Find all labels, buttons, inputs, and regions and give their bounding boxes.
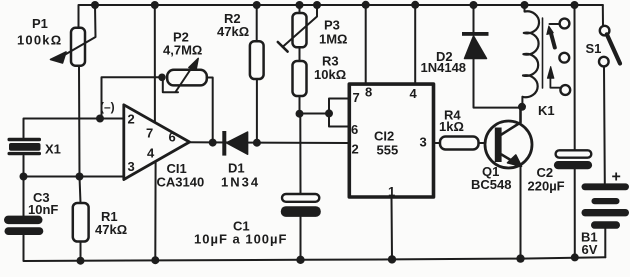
svg-text:BC548: BC548 [471, 177, 511, 192]
svg-text:1N4148: 1N4148 [421, 60, 467, 75]
svg-text:6V: 6V [582, 242, 598, 257]
label C1 value [194, 219, 287, 247]
svg-text:4,7MΩ: 4,7MΩ [163, 43, 202, 58]
capacitor C2 [554, 150, 592, 169]
junction dot P3 wiper on rail [313, 1, 321, 9]
svg-text:6: 6 [169, 130, 176, 145]
junction dot pin 8 [362, 1, 370, 9]
relay coil K1 [522, 6, 539, 107]
label R3 value 10k [314, 54, 346, 83]
relay moving blade [547, 24, 560, 48]
svg-text:4: 4 [147, 146, 155, 161]
svg-text:7: 7 [353, 90, 360, 105]
diode D1 1N34 [222, 131, 247, 156]
wire node down to C1 [299, 114, 301, 194]
svg-text:1N34: 1N34 [221, 175, 260, 190]
wire battery bottom to ground [604, 229, 606, 257]
svg-text:CA3140: CA3140 [157, 175, 205, 190]
wire feedback from node up to P2 left [102, 77, 163, 118]
pin labels CI2 [351, 85, 427, 200]
svg-text:4: 4 [410, 86, 418, 101]
svg-text:X1: X1 [45, 142, 61, 157]
junction node X1 / pin3 wire [20, 173, 28, 181]
wire pin 1 to ground [391, 197, 394, 259]
junction dot pin 4 [411, 1, 419, 9]
junction dot coil top rail [521, 1, 529, 9]
svg-text:10µF a 100µF: 10µF a 100µF [194, 232, 287, 247]
capacitor C3 [4, 216, 43, 235]
junction dot C2 ground [571, 253, 579, 261]
svg-text:P1: P1 [32, 16, 48, 31]
svg-text:2: 2 [128, 112, 135, 127]
potentiometer P3 [278, 5, 317, 52]
wire pin 4 to rail [414, 5, 416, 83]
svg-text:47kΩ: 47kΩ [95, 222, 127, 237]
junction dot R2 top [253, 1, 261, 9]
svg-text:10nF: 10nF [28, 202, 58, 217]
wire node to 555 pins 7-6 bracket [300, 113, 330, 115]
svg-text:3: 3 [420, 135, 427, 150]
label P2 value 4,7M [163, 30, 202, 58]
wire P3 to R3 [299, 47, 301, 61]
junction dot P1 wiper on rail [91, 1, 99, 9]
wire node to op-amp pin 3 [24, 176, 125, 178]
wire top supply rail [79, 5, 603, 28]
label CI1 CA3140 [157, 161, 205, 190]
junction dot emitter ground [516, 254, 524, 262]
relay armature line [542, 18, 544, 88]
svg-text:7: 7 [146, 126, 153, 141]
label P1 value 100k [17, 16, 62, 48]
label CI2 555 [374, 129, 398, 158]
capacitor C1 [281, 194, 321, 217]
svg-text:CI2: CI2 [374, 129, 394, 144]
resistor R2 [250, 5, 264, 143]
junction dot CI1 power top [151, 1, 159, 9]
svg-text:6: 6 [351, 122, 358, 137]
switch S1 [599, 5, 620, 183]
label B1 6V [581, 230, 598, 258]
IC CI2 555 box [349, 84, 433, 197]
svg-text:47kΩ: 47kΩ [217, 24, 249, 39]
junction dot coil bottom node [518, 103, 526, 111]
label R1 value 47k [95, 209, 127, 237]
resistor R1 [73, 203, 89, 242]
wire X1 top to inverting input [24, 119, 125, 138]
label R4 value 1k [439, 108, 464, 135]
svg-text:3: 3 [128, 159, 135, 174]
relay contact top [560, 19, 570, 29]
diode D2 1N4148 [462, 6, 522, 108]
wire pin 8 to rail [365, 5, 367, 83]
junction dot C1 ground [296, 256, 304, 264]
relay contact bottom [560, 85, 570, 95]
wire pin 3 to R4 [436, 142, 441, 144]
resistor R4 [440, 137, 479, 150]
wire bottom ground rail [24, 235, 606, 261]
wire bracket pins 7 and 6 [329, 99, 348, 127]
wire CI1 power rail through pins 7/4 [154, 5, 156, 123]
op-amp U1 CA3140 triangle [124, 105, 190, 180]
crystal X1 [8, 138, 42, 155]
wire supply to C2 column [574, 5, 576, 150]
svg-text:220µF: 220µF [528, 179, 565, 194]
wire C1 bottom to ground [300, 217, 302, 260]
junction dot pin 1 ground [388, 255, 396, 263]
battery B1 [582, 183, 630, 228]
svg-text:8: 8 [365, 85, 372, 100]
label D2 value 1N4148 [421, 49, 467, 75]
svg-text:1MΩ: 1MΩ [319, 32, 347, 47]
potentiometer P1 [51, 5, 96, 66]
svg-text:2: 2 [352, 142, 359, 157]
label C3 value 10nF [28, 190, 58, 217]
wire R1 bottom to ground rail [80, 242, 82, 261]
svg-text:D1: D1 [228, 161, 245, 176]
svg-text:+: + [612, 169, 621, 186]
junction dot R1 ground [77, 257, 85, 265]
pin labels CI1 [128, 112, 176, 175]
label P3 value 1M [319, 18, 347, 47]
wire R3 bottom to threshold node [299, 96, 301, 114]
wire R4 to Q1 base [479, 142, 497, 144]
label C2 value 220uF [528, 165, 565, 194]
junction dot P2 left terminal [158, 74, 166, 82]
svg-text:555: 555 [377, 143, 399, 158]
junction dot P2/output [209, 139, 217, 147]
svg-text:100kΩ: 100kΩ [17, 33, 62, 48]
resistor R3 [293, 61, 307, 96]
svg-text:S1: S1 [586, 41, 602, 56]
junction dot D2 top rail [470, 1, 478, 9]
svg-text:1kΩ: 1kΩ [439, 119, 464, 134]
relay contact middle [559, 53, 569, 63]
label Q1 BC548 [471, 164, 511, 192]
label R2 value 47k [217, 11, 249, 39]
svg-text:P3: P3 [324, 18, 340, 33]
wire P1 bottom to R1 column [79, 66, 81, 203]
junction node pin3 / R1 [76, 173, 84, 181]
wire X1 bottom to C3 [23, 156, 25, 216]
junction dot CI1 power bottom [151, 256, 159, 264]
junction dot P3 top [296, 1, 304, 9]
label D1 value 1N34 [221, 161, 260, 190]
wire op-amp output to 555 pin 2 [190, 141, 349, 144]
wire C2 bottom to ground [574, 169, 576, 257]
wire Q1 emitter to ground [520, 166, 522, 259]
junction dot R3/C1 node [296, 110, 304, 118]
relay actuation arrow [547, 67, 560, 88]
svg-text:K1: K1 [538, 103, 555, 118]
potentiometer P2 [163, 58, 207, 92]
junction dot D1 cathode node [253, 139, 261, 147]
wire P2 right down to op-amp output [207, 78, 213, 143]
junction dot bracket [325, 109, 333, 117]
junction dot C2 top rail [571, 1, 579, 9]
svg-text:10kΩ: 10kΩ [314, 67, 346, 82]
junction dot inverting input node [96, 115, 104, 123]
transistor Q1 BC548 [485, 107, 532, 168]
